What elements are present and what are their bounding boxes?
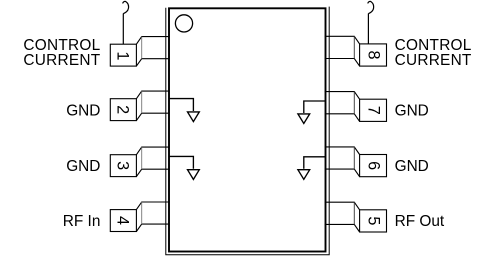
svg-text:GND: GND [66,158,100,175]
svg-text:5: 5 [365,216,383,225]
wire to pin 1 [122,14,124,45]
wire break squiggle (pin 8) [368,1,374,13]
IC package outer outline (top-face offset) [166,7,329,255]
svg-text:8: 8 [365,50,383,59]
svg-text:CURRENT: CURRENT [395,52,472,69]
svg-text:RF Out: RF Out [395,213,445,230]
ground arrow (pin 2) [170,99,200,122]
svg-text:CURRENT: CURRENT [23,52,100,69]
pin 1 indicator circle [175,15,192,32]
pin 5 lead [325,202,387,232]
wire to pin 8 [367,14,369,44]
pin 8 lead [325,36,387,66]
svg-text:2: 2 [114,105,132,114]
svg-text:GND: GND [395,158,429,175]
pin 1 lead [110,37,169,67]
pin 3 lead [110,147,169,177]
svg-text:GND: GND [66,103,100,120]
pin 2 lead [110,91,169,121]
svg-text:RF In: RF In [63,213,101,230]
pin 6 lead [325,147,387,177]
svg-text:3: 3 [114,161,132,170]
ground arrow (pin 7) [298,101,325,124]
pin 4 lead [110,202,169,232]
pin 7 lead [325,92,387,122]
svg-text:6: 6 [365,161,383,170]
svg-text:7: 7 [365,106,383,115]
wire break squiggle (pin 1) [123,1,129,13]
ground arrow (pin 6) [298,157,325,180]
svg-text:1: 1 [114,51,132,60]
IC package body [169,8,326,251]
svg-text:4: 4 [114,216,132,225]
svg-text:GND: GND [395,103,429,120]
ground arrow (pin 3) [170,156,200,179]
